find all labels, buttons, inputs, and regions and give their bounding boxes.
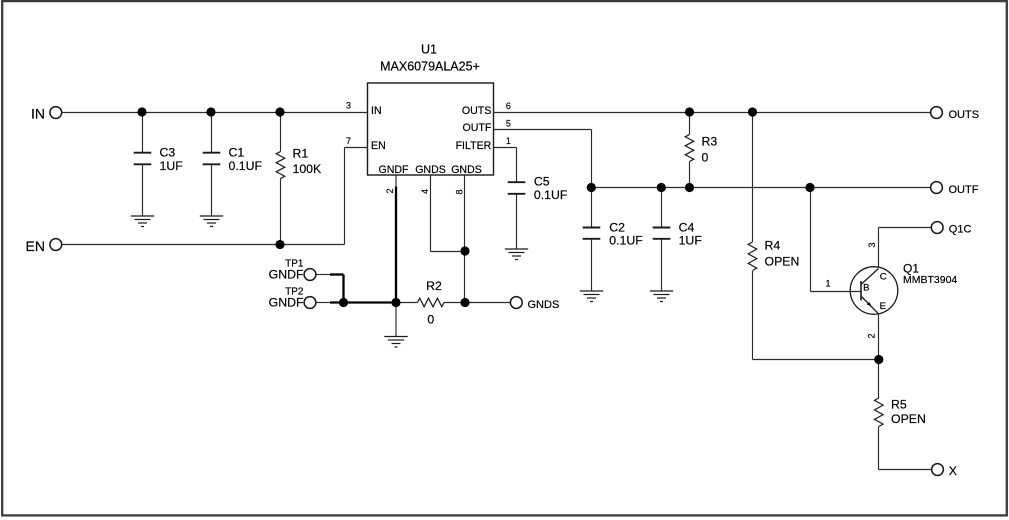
svg-text:1: 1: [506, 136, 511, 146]
svg-text:5: 5: [506, 119, 511, 129]
svg-text:GNDS: GNDS: [451, 164, 482, 176]
svg-text:U1: U1: [421, 43, 437, 57]
svg-text:6: 6: [506, 101, 511, 111]
svg-text:1: 1: [825, 279, 830, 289]
svg-text:C2: C2: [609, 221, 625, 235]
svg-text:2: 2: [867, 333, 877, 338]
svg-text:EN: EN: [371, 140, 386, 152]
svg-text:4: 4: [420, 189, 430, 194]
svg-text:C3: C3: [160, 146, 176, 160]
svg-text:GNDS: GNDS: [528, 299, 560, 311]
svg-text:OUTS: OUTS: [462, 105, 491, 117]
svg-text:C5: C5: [534, 175, 550, 189]
svg-text:7: 7: [346, 136, 351, 146]
svg-text:R3: R3: [702, 135, 718, 149]
svg-text:R1: R1: [293, 147, 309, 161]
svg-text:E: E: [880, 301, 886, 312]
svg-text:GNDF: GNDF: [269, 268, 304, 282]
svg-text:GNDF: GNDF: [269, 296, 304, 310]
svg-text:0.1UF: 0.1UF: [534, 188, 568, 202]
svg-text:MMBT3904: MMBT3904: [903, 274, 957, 286]
svg-text:0.1UF: 0.1UF: [609, 234, 643, 248]
svg-text:R5: R5: [891, 397, 907, 411]
svg-text:100K: 100K: [293, 162, 323, 176]
svg-text:3: 3: [346, 101, 351, 111]
svg-text:3: 3: [867, 242, 877, 247]
svg-text:R4: R4: [765, 239, 781, 253]
svg-text:GNDS: GNDS: [415, 164, 446, 176]
svg-text:OUTS: OUTS: [949, 109, 980, 121]
svg-text:IN: IN: [371, 105, 382, 117]
svg-text:Q1C: Q1C: [949, 224, 972, 236]
svg-text:0: 0: [427, 313, 434, 327]
svg-text:0.1UF: 0.1UF: [229, 159, 263, 173]
svg-text:C: C: [880, 272, 887, 283]
svg-text:OPEN: OPEN: [891, 412, 926, 426]
svg-text:R2: R2: [426, 279, 442, 293]
svg-text:C1: C1: [229, 146, 245, 160]
svg-text:OUTF: OUTF: [949, 184, 979, 196]
svg-text:C4: C4: [679, 221, 695, 235]
svg-text:OUTF: OUTF: [462, 122, 491, 134]
svg-text:1UF: 1UF: [160, 159, 184, 173]
svg-text:OPEN: OPEN: [765, 255, 800, 269]
svg-text:8: 8: [454, 189, 464, 194]
svg-text:GNDF: GNDF: [378, 164, 409, 176]
svg-text:X: X: [949, 464, 957, 478]
svg-text:EN: EN: [26, 238, 45, 254]
svg-text:1UF: 1UF: [679, 234, 703, 248]
svg-text:MAX6079ALA25+: MAX6079ALA25+: [380, 60, 480, 74]
svg-text:2: 2: [385, 188, 395, 193]
svg-text:FILTER: FILTER: [456, 140, 492, 152]
svg-text:B: B: [863, 283, 869, 294]
svg-text:IN: IN: [31, 105, 45, 121]
svg-text:0: 0: [702, 151, 709, 165]
